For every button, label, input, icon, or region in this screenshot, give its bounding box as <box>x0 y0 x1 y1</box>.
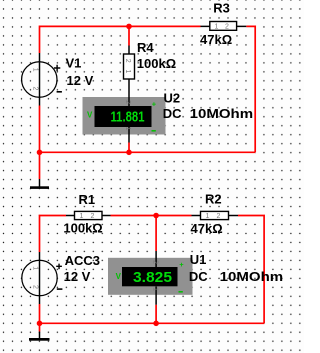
multimeter U1 minus terminal mark <box>179 291 183 293</box>
svg-text:ACC3: ACC3 <box>65 253 100 268</box>
svg-text:2: 2 <box>32 87 39 91</box>
svg-text:1: 1 <box>124 70 131 74</box>
source ACC3 pins <box>39 252 41 304</box>
svg-text:1: 1 <box>32 266 39 270</box>
junction node bottom rail / V1 / ground <box>37 150 43 156</box>
svg-text:1: 1 <box>124 127 131 131</box>
svg-text:R3: R3 <box>213 0 230 15</box>
multimeter U2 minus terminal mark <box>152 130 156 132</box>
wire R4 branch from top rail <box>128 26 130 45</box>
source ACC3 body <box>22 260 57 295</box>
junction node rail / U1 top <box>153 213 159 219</box>
junction node rail / ACC3 / ground <box>37 321 43 327</box>
svg-text:3.825: 3.825 <box>133 269 172 286</box>
resistor R4 body <box>124 54 135 79</box>
svg-text:100kΩ: 100kΩ <box>137 56 176 71</box>
svg-text:12 V: 12 V <box>64 269 91 284</box>
wire U2 bottom to rail <box>128 143 130 153</box>
svg-text:11.881: 11.881 <box>111 108 145 125</box>
ground 1 bar <box>30 186 49 189</box>
multimeter U1 case <box>108 258 193 295</box>
wire ACC3 bottom to rail <box>39 304 41 323</box>
svg-text:U2: U2 <box>164 90 181 105</box>
wire V1 bottom to rail <box>39 106 41 153</box>
svg-text:1: 1 <box>215 24 219 31</box>
wire bottom circuit top rail left <box>40 216 67 253</box>
svg-text:47kΩ: 47kΩ <box>200 32 232 47</box>
svg-text:1: 1 <box>80 213 84 220</box>
wire U1 bottom to rail <box>155 305 157 324</box>
source V1 plus sign <box>54 65 60 71</box>
junction node bottom rail / U2 <box>126 150 132 156</box>
multimeter U2 display <box>95 106 152 127</box>
svg-text:47kΩ: 47kΩ <box>191 221 223 236</box>
wire rail to ground 2 <box>39 323 41 331</box>
wire underlays (hide grid dots beneath wires) <box>40 24 265 332</box>
svg-text:2: 2 <box>124 59 131 63</box>
source ACC3 minus sign <box>57 288 63 290</box>
ground 1 stub <box>39 179 41 188</box>
ground 2 bar <box>29 338 50 341</box>
multimeter U1 pin stubs <box>155 251 157 267</box>
svg-text:R1: R1 <box>79 192 96 207</box>
svg-text:DC: DC <box>163 106 182 121</box>
svg-text:2: 2 <box>32 285 39 289</box>
multimeter U1 display <box>122 267 178 286</box>
svg-text:U1: U1 <box>190 252 207 267</box>
resistor R2 pins <box>192 215 239 217</box>
resistor R3 pins <box>201 25 247 27</box>
source V1 body <box>22 62 57 97</box>
source V1 minus sign <box>57 91 62 93</box>
source V1 pins <box>39 53 41 106</box>
svg-text:2: 2 <box>225 24 229 31</box>
resistor R2 body <box>201 211 229 219</box>
svg-text:2: 2 <box>151 260 158 264</box>
wire U1 branch down <box>155 216 157 252</box>
wire bottom rail of top circuit <box>40 151 256 153</box>
resistor R1 body <box>75 211 103 219</box>
multimeter U2 pin stubs <box>128 97 130 106</box>
svg-text:100kΩ: 100kΩ <box>63 221 102 236</box>
junction node rail / U1 bottom <box>153 321 159 327</box>
junction node top rail / R4 <box>126 24 132 30</box>
resistor R1 pins <box>66 215 111 217</box>
svg-text:10MOhm: 10MOhm <box>190 106 254 121</box>
svg-text:R2: R2 <box>205 191 222 206</box>
wire R2 right to corner and down <box>238 216 264 324</box>
source ACC3 plus sign <box>56 264 62 270</box>
svg-text:10MOhm: 10MOhm <box>220 269 284 284</box>
wire R1 to R2 segment <box>111 215 192 217</box>
svg-text:12 V: 12 V <box>67 73 94 88</box>
svg-text:R4: R4 <box>137 40 154 55</box>
wire top rail left (V1 top to R3 left) <box>40 26 201 53</box>
svg-text:V1: V1 <box>66 56 82 71</box>
svg-text:+: + <box>152 99 157 108</box>
svg-text:2: 2 <box>91 213 95 220</box>
resistor R3 body <box>210 22 237 31</box>
resistor R4 pins <box>128 46 130 98</box>
svg-text:1: 1 <box>32 68 39 72</box>
svg-text:V: V <box>87 111 93 120</box>
wire R3 right to top-right corner and down right side <box>246 26 255 152</box>
svg-text:+: + <box>179 260 184 269</box>
ground 2 stub <box>39 332 41 340</box>
svg-text:V: V <box>116 272 122 281</box>
svg-text:1: 1 <box>206 213 210 220</box>
wire rail to ground 1 <box>39 152 41 179</box>
svg-text:2: 2 <box>124 100 131 104</box>
svg-text:1: 1 <box>151 287 158 291</box>
svg-text:2: 2 <box>217 213 221 220</box>
svg-text:DC: DC <box>189 269 208 284</box>
wire bottom rail of bottom circuit <box>40 322 265 324</box>
multimeter U2 case <box>83 97 166 135</box>
